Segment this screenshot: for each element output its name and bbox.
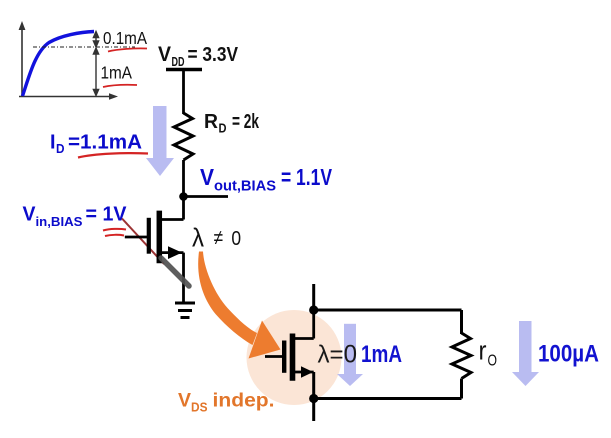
- svg-text:1mA: 1mA: [361, 341, 402, 368]
- svg-text:out,BIAS: out,BIAS: [214, 179, 276, 195]
- svg-text:V: V: [158, 43, 171, 66]
- svg-text:0: 0: [231, 227, 241, 250]
- svg-text:=1.1mA: =1.1mA: [68, 131, 142, 154]
- svg-text:V: V: [200, 164, 215, 190]
- svg-text:0.1mA: 0.1mA: [103, 28, 147, 48]
- svg-text:R: R: [204, 111, 219, 133]
- svg-text:= 2k: = 2k: [232, 111, 260, 133]
- svg-text:V: V: [23, 203, 36, 226]
- svg-text:DD: DD: [172, 54, 185, 69]
- svg-text:DS: DS: [191, 401, 208, 415]
- svg-text:100µA: 100µA: [538, 341, 599, 368]
- svg-text:I: I: [50, 131, 56, 154]
- svg-text:D: D: [56, 141, 65, 156]
- svg-text:≠: ≠: [214, 227, 224, 250]
- svg-text:= 1.1V: = 1.1V: [281, 164, 332, 190]
- svg-text:= 1V: = 1V: [86, 203, 127, 226]
- svg-text:1mA: 1mA: [101, 63, 133, 83]
- svg-text:r: r: [479, 338, 487, 366]
- svg-text:in,BIAS: in,BIAS: [36, 214, 83, 229]
- svg-text:O: O: [488, 353, 498, 370]
- svg-text:λ: λ: [192, 223, 204, 253]
- svg-text:= 3.3V: = 3.3V: [188, 44, 239, 66]
- svg-text:λ=0: λ=0: [318, 341, 358, 369]
- svg-text:V: V: [178, 390, 191, 412]
- svg-text:D: D: [219, 121, 227, 136]
- svg-text:indep.: indep.: [213, 390, 275, 412]
